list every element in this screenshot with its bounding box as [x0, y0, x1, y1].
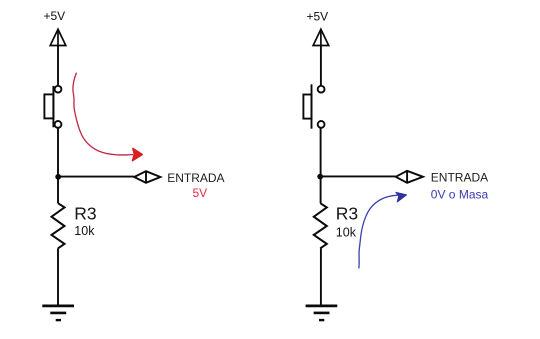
power terminal arrow (left)	[50, 29, 66, 45]
node junction dot (right)	[317, 174, 323, 180]
annotation red arrow (button pressed gives 5V)	[73, 73, 133, 155]
resistor R3 (left)	[52, 203, 65, 248]
node junction dot (left)	[55, 174, 61, 180]
svg-text:10k: 10k	[336, 226, 357, 240]
wire from +5V to button (left)	[57, 46, 59, 86]
annotation blue arrow (resistor pulls input to 0V)	[359, 195, 398, 268]
svg-text:+5V: +5V	[44, 9, 66, 23]
resistor R3 (right)	[314, 203, 327, 248]
svg-text:5V: 5V	[193, 186, 208, 200]
ground symbol (right)	[306, 306, 338, 320]
pushbutton S (right, released)	[303, 84, 324, 128]
svg-text:+5V: +5V	[307, 9, 329, 23]
wire resistor to ground (left)	[57, 248, 59, 305]
wire resistor to ground (right)	[320, 248, 322, 305]
pushbutton S (left, pressed)	[44, 86, 61, 128]
power terminal arrow (right)	[313, 29, 329, 45]
svg-text:10k: 10k	[74, 224, 95, 238]
svg-text:ENTRADA: ENTRADA	[167, 171, 224, 185]
svg-text:ENTRADA: ENTRADA	[431, 171, 488, 185]
wire from +5V to button (right)	[320, 46, 322, 86]
svg-text:R3: R3	[74, 204, 96, 224]
terminal ENTRADA diamond (right)	[396, 171, 423, 183]
wire from button to junction and resistor (right)	[320, 128, 322, 203]
wire from button to junction and resistor (left)	[57, 128, 59, 203]
wire junction to ENTRADA terminal (right)	[320, 175, 396, 177]
terminal ENTRADA diamond (left)	[134, 171, 160, 183]
svg-text:0V o Masa: 0V o Masa	[431, 188, 489, 202]
svg-text:R3: R3	[336, 204, 358, 224]
ground symbol (left)	[42, 306, 74, 320]
wire junction to ENTRADA terminal (left)	[58, 176, 134, 178]
